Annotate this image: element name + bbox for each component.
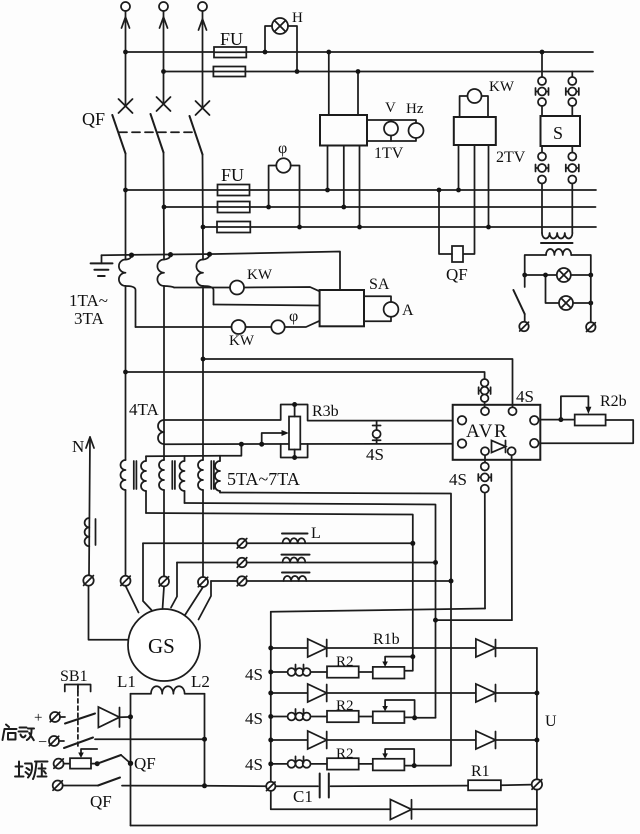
wire KW goalpost [460,96,488,117]
pole 3 wire mid [202,286,204,460]
junction sync row1 right [588,273,593,278]
wire phi right lead [291,166,300,228]
label C1 [293,787,313,806]
breaker QF linkage dashed [119,131,193,133]
wire pole1 into GS [126,586,139,613]
label KW2 [229,333,255,349]
label 1TV [374,145,404,162]
label QF equalize [134,754,156,773]
junction 1TV/bus227 [357,225,362,230]
rheostat start resistor [64,749,98,769]
wire AVR bottom1 drop [484,493,486,609]
contact QF equalize upper [95,755,131,766]
R2 row B wire [268,714,373,719]
label R2b [600,393,627,410]
transformer 5TA unit1 secondary [141,456,146,513]
svg-text:5TA~7TA: 5TA~7TA [227,469,300,489]
wire AVR bottom2 drop [511,455,513,620]
resistor R2 rowB [327,698,359,722]
R2 row C wire [268,761,373,766]
capacitor C1 [275,774,468,798]
junction R1bC join [412,763,417,768]
junction Lrow3/feederC [449,579,454,584]
wire sync secondary left lead [525,255,546,275]
fuse FU4 [218,202,250,213]
svg-text:+: + [34,710,42,726]
CT 2TA coil [157,260,164,286]
synchroscope S box [541,116,581,146]
label phi mid [289,308,298,325]
plug L row 3 [237,576,247,586]
wire Lrow1 into GS [143,543,152,610]
label R1 [471,763,490,780]
fuse FU3 [218,185,250,196]
svg-text:QF: QF [82,109,105,129]
meter A [384,302,399,317]
plug sync right [586,322,595,331]
transformer 7TA unit3 core [211,461,214,489]
AVR internal diode [492,441,506,453]
top rail of rectifier block [271,609,485,612]
label phi top [278,140,287,157]
junction 1TV/bus190 [325,188,330,193]
pole 2 drop wire [163,153,166,260]
diode row C wire [268,738,539,743]
CT 1TA top tap [126,253,135,260]
neutral N arrow [86,437,94,575]
CT 4TA coil [158,420,164,444]
label V [385,100,396,116]
R3b wiper arrow [259,430,289,447]
meter phi top [276,158,290,172]
transformer 6TA unit2 primary [159,460,164,490]
junction sync row1 mid [543,273,548,278]
wire AVR right1 to R2b [540,417,574,422]
svg-text:4S: 4S [245,755,263,774]
plug column 2 upper stub [571,72,573,78]
label 4S rowA [245,665,263,684]
wire field right leg [204,694,206,786]
label 5TA~7TA [227,469,300,489]
rheostat R3b [289,417,300,450]
plug L row 1 [237,539,247,549]
fuse FU1 [214,47,246,58]
svg-text:φ: φ [289,308,298,325]
meter KW top [468,89,482,103]
svg-text:QF: QF [90,792,112,811]
plug junya 2 [53,781,63,791]
sync transformer primary [542,233,572,239]
plug connector pair lower-left [536,146,549,233]
lamp H label [292,10,303,26]
AVR terminal bottom1 [481,447,489,455]
svg-text:R2: R2 [336,698,354,714]
breaker QF pole 3 cross [196,101,210,115]
wire Lrow3 into GS [199,581,212,620]
svg-text:L2: L2 [191,672,210,691]
connector 4S above AVR [479,379,491,407]
AVR terminal top1 [481,407,489,415]
sync transformer core [541,242,573,244]
svg-text:C1: C1 [293,787,313,806]
junction R1bB join [412,715,417,720]
svg-text:4S: 4S [516,387,534,406]
CT 1TA bottom tap [126,286,136,327]
phase A feeder wire with up arrow [122,11,130,104]
resistor R1 [468,780,531,790]
label 4S rowB [245,709,263,728]
svg-text:U: U [545,713,557,730]
contact SB1 upper [60,714,95,724]
junction 1TV/bus207 [341,205,346,210]
svg-text:R1b: R1b [373,631,400,648]
label L2 [191,672,210,691]
CT coils row C [288,756,311,767]
junction sync row1 left [522,273,527,278]
wire L row 1 [143,542,413,544]
wire AVR bottom2 link [433,618,512,623]
wire T2 output feeder [185,503,436,718]
junction pole2/bus2 [161,69,166,74]
inductor L row 3 [282,573,310,582]
junction Lrow1/feederA [410,541,415,546]
label N [72,437,84,456]
wire 1TV bottom lead 1 [327,146,329,191]
junction 2TV/bus190 [456,188,461,193]
junction H/bus2 [295,69,300,74]
wire sync secondary right lead [571,255,591,275]
svg-text:R3b: R3b [312,403,339,420]
fuse FU label top [220,29,243,49]
wire R2b return loop [540,420,633,443]
button SB1 [60,668,91,746]
meter V [384,122,398,136]
indicator lamp H [272,18,288,34]
label QF mid [446,265,468,284]
AVR terminal left1 [458,416,467,425]
AVR terminal top2 [509,407,517,415]
pole 1 drop wire [125,154,127,260]
incoming phase terminal C [198,2,207,11]
svg-text:1TA~: 1TA~ [69,291,108,310]
wire lamp H left lead [265,26,272,52]
plug connector pair lower-right [566,146,579,233]
breaker QF blade 1 [112,115,125,154]
label S [553,123,563,143]
svg-text:S: S [553,123,563,143]
svg-text:4S: 4S [245,665,263,684]
junction diode/field-left [128,714,133,719]
wire 2TV bottom lead c [488,145,490,227]
rheostat R1b rowB [373,700,436,723]
CT 3TA coil [196,260,203,286]
fuse FU2 [213,67,245,77]
svg-text:A: A [402,302,414,319]
svg-text:SA: SA [369,276,390,293]
svg-text:QF: QF [446,265,468,284]
svg-text:2TV: 2TV [496,149,526,166]
CT 1TA coil [119,260,126,286]
wire sync lamp row 1 [525,274,591,276]
switch SA box [320,290,364,326]
junction plug1/bus1 [540,50,545,55]
incoming phase terminal A [121,2,130,11]
wire CT secondary common [102,252,341,291]
label A [402,302,414,319]
sync lamp 1 [557,268,571,282]
diode B2 [476,684,496,702]
pole 3 wire low [202,490,204,577]
wire bottom rail [131,790,537,826]
svg-text:3TA: 3TA [74,309,105,328]
bottom diode wire [271,808,537,810]
wire pole1 to AVR sense [123,370,485,379]
wire phi left lead [269,166,277,208]
meter Hz [409,123,424,138]
CT 3TA top tap [203,252,212,260]
transformer 5TA unit1 core [134,461,137,489]
CT 3TA bottom tap [203,286,214,305]
svg-text:R1: R1 [471,763,490,780]
phase C feeder wire with up arrow [199,11,207,106]
junction pole1/bus190 [123,188,128,193]
wire pole2 into GS [163,586,165,609]
AVR terminal bottom2 [508,447,516,455]
svg-text:SB1: SB1 [60,668,88,685]
field winding L1-L2 [131,686,205,693]
plug pole1 [121,576,131,586]
pole 3 drop wire [202,155,205,260]
breaker QF pole 1 cross [119,99,133,113]
label 4S above AVR [516,387,534,406]
junction 2TV/bus227 [486,225,491,230]
wire KW2/phi row [136,321,320,327]
plug sync left [519,322,528,331]
pole 2 wire low [163,490,165,577]
AVR terminal left2 [458,439,467,448]
svg-text:GS: GS [148,634,175,658]
wire Lrow2 into GS [171,563,177,608]
CT 2TA bottom tap [164,286,174,288]
plug pole2 [159,576,169,586]
CT coils row B [288,709,311,720]
label 4S below AVR [449,470,467,489]
generator GS [128,609,200,681]
svg-text:R2b: R2b [600,393,627,410]
plug pole3 [198,577,208,587]
fuse FU label mid [221,165,244,185]
wire L row 2 [177,562,436,564]
rheostat R1b rowC [373,749,414,770]
transformer 5TA unit1 primary [121,460,126,490]
wire 5TA secondary star line [146,442,244,457]
coil QF small rect [452,246,463,262]
junction pole3/bus227 [201,225,206,230]
plug start minus [38,734,59,751]
AVR terminal right2 [530,439,539,448]
sync switch blade [513,275,524,322]
label 4S rowC [245,755,263,774]
phase B feeder wire with up arrow [160,11,168,102]
connector 4S bridge [373,421,381,444]
plug L row 2 [237,558,247,568]
label 1TA~3TA [69,291,108,328]
label qidong (start) [3,725,35,741]
bus wire 227 [203,226,596,228]
sync lamp 2 [559,296,573,310]
plug column 1 upper stub [541,52,543,77]
junction start-minus/field-right [202,737,207,742]
svg-text:V: V [385,100,396,116]
wire V/Hz top rail [367,120,416,123]
junction equalize2/field-right [202,783,207,788]
wire QF coil return [439,190,452,254]
svg-text:−: − [38,734,47,751]
pole 1 wire low [125,490,127,576]
wire N to GS [89,586,129,640]
wire R3b top lead [292,402,297,417]
fuse FU5 [217,222,250,233]
wire 4TA lower tap to AVR [164,443,453,446]
diode row A wire [268,646,537,651]
wire pole3 into GS [185,587,203,615]
svg-text:AVR: AVR [466,421,508,442]
meter KW1 [230,281,244,295]
meter KW2 [232,320,246,334]
breaker QF pole 2 cross [157,97,171,111]
pole 1 wire mid [125,286,127,460]
label 2TV [496,149,526,166]
svg-text:L: L [311,525,321,542]
label Hz [406,101,424,117]
junction 1TV/bus2 [356,69,361,74]
resistor R2 rowC [327,746,359,770]
label junya (equalize) [15,762,48,780]
svg-text:R2: R2 [336,654,354,670]
wire 1TV bottom lead 3 [359,146,361,228]
svg-text:N: N [72,437,84,456]
label R1b [373,631,400,648]
diode row B wire [268,691,539,696]
breaker QF label [82,109,105,129]
junction pole2/bus207 [162,205,167,210]
R2 row A wire [268,670,373,675]
svg-text:H: H [292,10,303,26]
wire 2TV bottom lead b [463,145,475,254]
plug N [83,575,93,585]
junction 1TV/bus1 [326,50,331,55]
connector 4S below AVR [478,455,491,493]
transformer 6TA unit2 secondary [180,456,185,503]
plug connector pair upper-left [536,77,549,116]
diode B1 [308,684,327,702]
sync transformer secondary [546,249,571,255]
wire T3 output feeder [220,493,451,766]
junction phi/bus207 [266,205,271,210]
resistor R2 rowA [327,654,359,678]
wire sync lamp row 2 [546,275,591,303]
reactor on N line [85,518,96,546]
bus wire L2 top [164,71,594,73]
transformer 6TA unit2 core [172,461,175,489]
wire U column [536,648,538,779]
wire 1TV top lead 1 [328,52,330,115]
bus wire L1 top [126,51,594,53]
junction QFcoil/bus190 [437,188,442,193]
wire ammeter loop [364,296,391,321]
junction equalize/field-left [128,761,133,766]
svg-text:4TA: 4TA [129,400,160,419]
wire KW1 row [174,287,320,291]
label R3b [312,403,339,420]
diode A2 [476,639,496,657]
svg-text:FU: FU [220,29,243,49]
label SA [369,276,390,293]
bus wire 190 [126,189,597,191]
label QF bottom [90,792,112,811]
svg-text:KW: KW [247,267,273,283]
wire lamp H right lead [288,26,297,72]
svg-text:KW: KW [229,333,255,349]
plug output U [532,779,542,789]
svg-text:4S: 4S [449,470,467,489]
bus wire 207 [164,206,596,208]
wire V/Hz bottom rail [367,136,416,142]
breaker QF blade 3 [190,116,203,155]
diode bottom [390,800,411,820]
label AVR [466,421,508,442]
label GS [148,634,175,658]
wire 1TV bottom lead 2 [343,146,345,208]
label U [545,713,557,730]
contact SB1 lower [59,738,205,749]
svg-text:4S: 4S [245,709,263,728]
diode C1row [308,731,327,749]
AVR terminal right1 [530,416,539,425]
wire 2TV bottom lead a [458,145,460,190]
regulator AVR box [453,405,541,460]
R2b wiper arrow [561,396,592,419]
label 4S bridge [366,445,384,464]
CT coils row A [288,665,311,676]
wire L row 3 [211,580,451,582]
diode C2row [476,731,496,749]
label KW1 [247,267,273,283]
label 4TA [129,400,160,419]
rheostat R1b rowA [373,657,413,679]
junction H/bus1 [263,50,268,55]
svg-text:FU: FU [221,165,244,185]
label L [311,525,321,542]
wire 1TV top lead 2 [357,72,359,116]
wire R3b bottom bracket [281,444,308,460]
svg-text:R2: R2 [336,746,354,762]
ground [91,255,113,276]
pole 2 wire mid [163,286,165,460]
plug on left rail [266,782,275,791]
junction Lrow2/feederB [433,560,438,565]
svg-text:L1: L1 [117,672,136,691]
svg-text:QF: QF [134,754,156,773]
svg-text:1TV: 1TV [374,145,404,162]
breaker QF blade 2 [151,114,164,153]
left rail of rectifier block [270,612,272,810]
transformer 2TV box [454,117,496,145]
wire CT3 row to SA [214,305,320,306]
wire T1 output feeder [146,513,413,671]
CT 2TA top tap [164,252,173,260]
wire 4TA upper tap to AVR [164,405,453,421]
